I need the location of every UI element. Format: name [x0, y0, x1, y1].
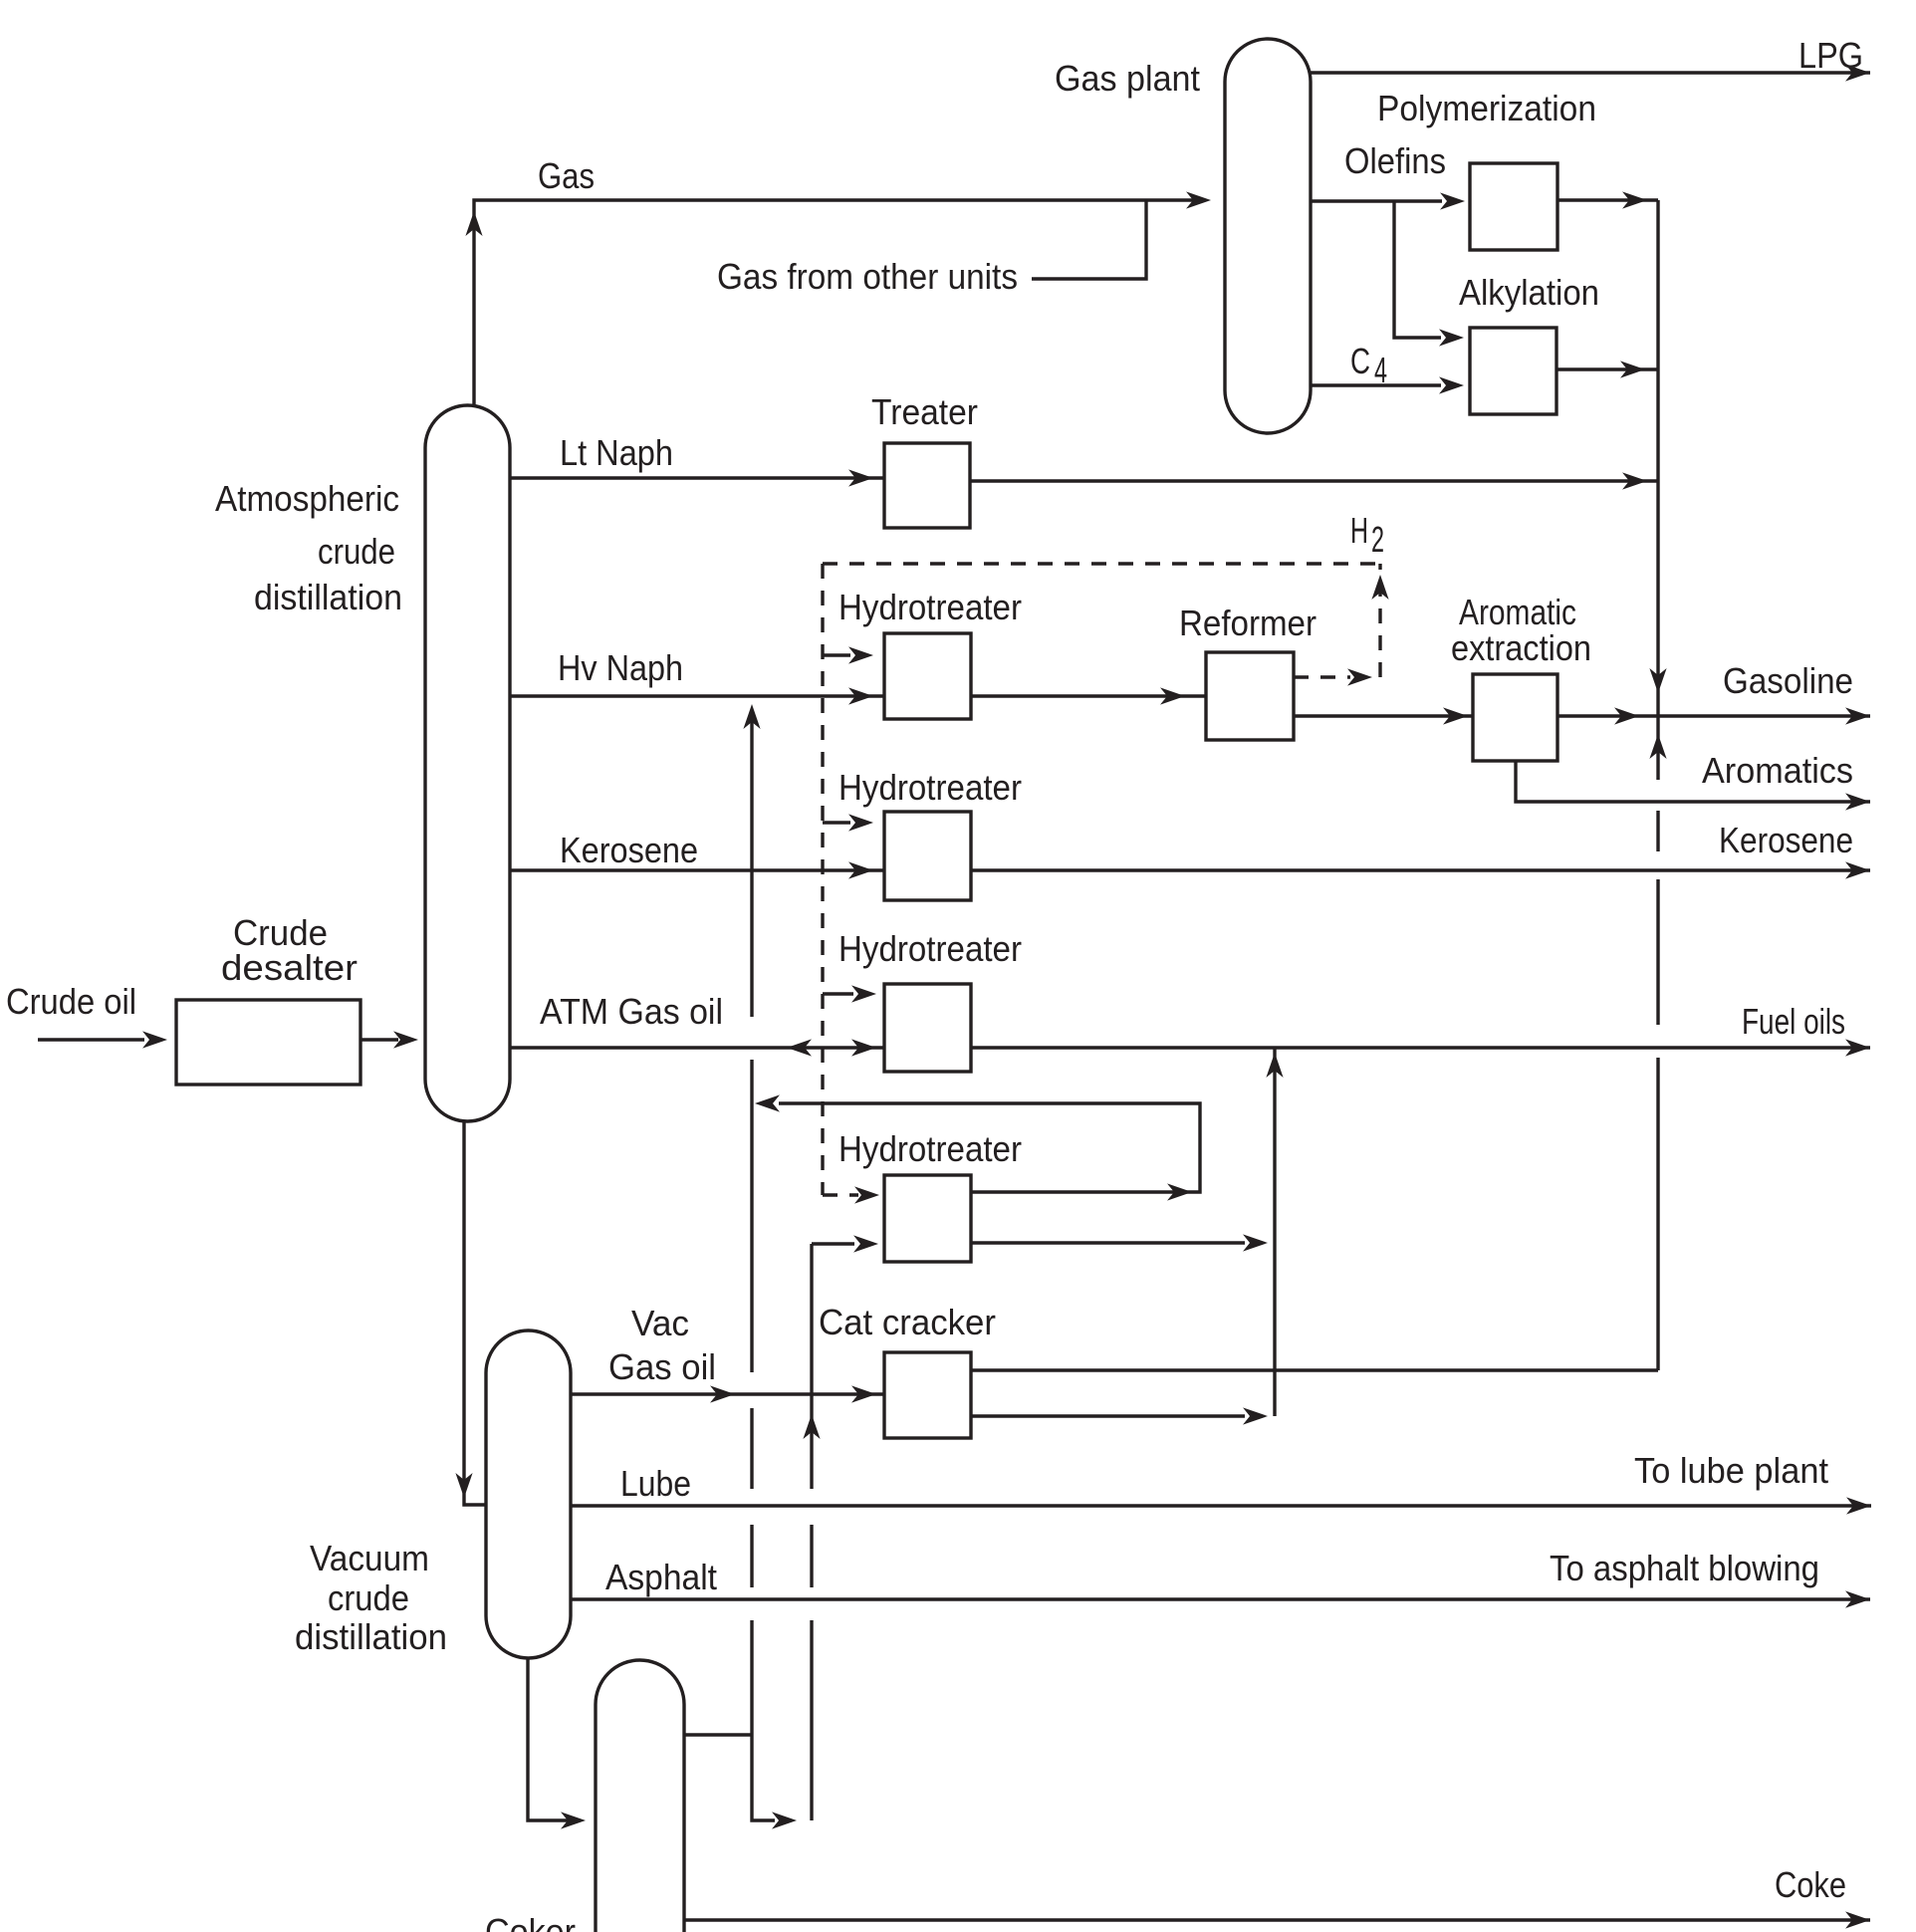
wire: gasoline header vertical segment down to cat cracker gasoline line — [1656, 1058, 1659, 1370]
svg-text:Gas plant: Gas plant — [1055, 58, 1200, 99]
wire: vacuum column bottoms to coker — [528, 1653, 574, 1820]
arrow: Hv Naph into hydrotreater 1 — [848, 687, 873, 704]
wire: kerosene product line — [971, 868, 1870, 871]
arrow: H2 up arrow into dashed header — [1371, 575, 1388, 600]
arrow: vacuum bottoms into coker — [561, 1811, 586, 1828]
svg-text:Gas: Gas — [538, 155, 595, 196]
unit: aromatic extraction box — [1473, 674, 1557, 761]
wire: fuel oil riser vertical — [1273, 1048, 1276, 1416]
wire: C4 line from gas plant to alkylation — [1311, 383, 1441, 386]
svg-text:Lt Naph: Lt Naph — [560, 432, 673, 473]
svg-text:Gas from other units: Gas from other units — [717, 256, 1018, 297]
VESSELS — [176, 39, 1557, 1932]
arrow: lube end — [1846, 1497, 1871, 1514]
arrow: ATM gas oil into hydrotreater 3 — [851, 1039, 876, 1056]
arrow: olefins branch into alkylation — [1439, 329, 1464, 346]
svg-text:Olefins: Olefins — [1344, 140, 1446, 181]
vessel: vacuum crude distillation column — [486, 1330, 571, 1658]
arrow: naphtha riser up arrow — [743, 704, 760, 729]
svg-text:desalter: desalter — [221, 947, 358, 988]
arrow: fuel oils end — [1845, 1039, 1870, 1056]
arrow: dashed H2 right arrow — [1347, 668, 1372, 685]
vessel: gas plant column — [1225, 39, 1311, 433]
wire: kerosene line from column to hydrotreater 2 — [510, 868, 886, 871]
arrow: vac gas oil mid arrow — [710, 1385, 735, 1402]
wire: coker gas oil riser segment between asphalt and lube — [810, 1525, 813, 1587]
svg-text:Asphalt: Asphalt — [605, 1557, 717, 1597]
wire: naphtha riser top segment to Hv Naph line — [750, 722, 753, 1017]
wire: naphtha riser segment between vac gas oil and lube — [750, 1408, 753, 1489]
wire: hydrotreater 1 outlet to reformer — [971, 694, 1208, 697]
arrow: coker gas oil up arrow into vac gas oil line — [803, 1414, 820, 1439]
unit: hydrotreater 1 box (Hv Naph) — [884, 633, 971, 719]
wire: gas overhead line from atmospheric column to gas plant — [474, 200, 1195, 410]
wire: asphalt line to asphalt blowing — [571, 1597, 1870, 1600]
svg-text:Vacuum: Vacuum — [310, 1538, 429, 1578]
svg-text:Polymerization: Polymerization — [1377, 88, 1596, 128]
svg-text:To lube plant: To lube plant — [1634, 1450, 1828, 1491]
wire: naphtha riser bottom segment from coker — [752, 1620, 775, 1820]
svg-text:Hydrotreater: Hydrotreater — [838, 767, 1022, 808]
svg-text:Aromatics: Aromatics — [1702, 750, 1853, 791]
svg-text:Alkylation: Alkylation — [1459, 272, 1599, 313]
arrow: gasoline end — [1845, 707, 1870, 724]
svg-text:crude: crude — [328, 1577, 409, 1618]
wire: hydrotreater 4 upper outlet loop — [779, 1103, 1200, 1192]
arrow: C4 into alkylation — [1439, 376, 1464, 393]
unit: hydrotreater 3 box (ATM gas oil) — [884, 984, 971, 1072]
svg-text:Gasoline: Gasoline — [1723, 660, 1853, 701]
wire: coker overhead to naphtha riser — [684, 1733, 752, 1736]
svg-text:Cat cracker: Cat cracker — [819, 1302, 996, 1342]
unit: polymerization box — [1470, 163, 1557, 250]
arrow: gas line up arrow — [465, 211, 482, 236]
wire: Hv Naph line from column to hydrotreater 1 — [510, 694, 886, 697]
svg-text:C: C — [1350, 341, 1370, 381]
wire: hydrotreater 4 lower outlet — [971, 1241, 1245, 1244]
svg-text:Gas oil: Gas oil — [608, 1346, 716, 1387]
wire: olefins branch down to alkylation — [1394, 201, 1441, 338]
unit: cat cracker box — [884, 1352, 971, 1438]
wire: cat cracker gasoline outlet to header — [971, 1368, 1658, 1371]
arrow: polymerization outlet — [1622, 191, 1647, 208]
svg-text:Lube: Lube — [620, 1463, 691, 1504]
arrow: into hydrotreater 4 lower inlet — [853, 1235, 878, 1252]
wire: crude oil feed line — [38, 1038, 144, 1041]
wire: gasoline header vertical segment between kerosene and fuel oils — [1656, 879, 1659, 1025]
vessel: atmospheric crude distillation column — [425, 405, 510, 1121]
wire: naphtha riser segment between ATM line and vac gas oil — [750, 1060, 753, 1372]
arrow: header down arrow above gasoline junction — [1649, 668, 1666, 693]
svg-text:Vac: Vac — [631, 1303, 689, 1343]
svg-text:H: H — [1350, 510, 1368, 551]
wire: dashed H2 header left vertical — [821, 564, 824, 1195]
wire: H2 feed stub to hydrotreater 1 — [823, 653, 850, 656]
unit: crude desalter box — [176, 1000, 360, 1085]
svg-text:2: 2 — [1371, 519, 1384, 560]
arrow: H2 stub into hydrotreater 1 — [848, 646, 873, 663]
vessel: coker column — [596, 1660, 684, 1932]
wire: desalter outlet to atmospheric column — [360, 1038, 398, 1041]
arrow: vac gas oil into cat cracker — [851, 1385, 876, 1402]
wire: naphtha riser segment between lube and asphalt — [750, 1525, 753, 1587]
arrow: asphalt end — [1845, 1590, 1870, 1607]
arrow: H2 into hydrotreater 4 — [854, 1186, 879, 1203]
wire: H2 feed stub to hydrotreater 2 — [823, 821, 850, 824]
wire: atmospheric column bottoms to vacuum column — [464, 1115, 488, 1505]
svg-text:Hydrotreater: Hydrotreater — [838, 587, 1022, 627]
svg-text:Coker: Coker — [485, 1911, 576, 1932]
arrow: loop corner arrow — [1167, 1183, 1192, 1200]
wire: coker riser corner into hydrotreater 4 — [812, 1242, 854, 1245]
wire: gasoline header vertical segment between aromatics and kerosene — [1656, 811, 1659, 851]
wire: treater outlet to header — [971, 479, 1658, 482]
unit: reformer box — [1206, 652, 1294, 740]
arrow: olefins into polymerization — [1440, 192, 1465, 209]
wire: ATM gas oil and fuel oils line — [510, 1046, 1870, 1049]
arrow: header up arrow below gasoline junction — [1649, 734, 1666, 759]
svg-text:Hydrotreater: Hydrotreater — [838, 1128, 1022, 1169]
arrow: cycle oil into fuel oil riser — [1243, 1407, 1268, 1424]
arrow: loop into naphtha riser — [755, 1094, 780, 1111]
svg-text:Atmospheric: Atmospheric — [215, 478, 399, 519]
arrow: coke end — [1845, 1911, 1870, 1928]
svg-text:LPG: LPG — [1798, 35, 1863, 76]
unit: alkylation box — [1470, 328, 1557, 414]
wire: dashed H2 from reformer — [1294, 675, 1350, 678]
unit: hydrotreater 4 box (coker gas oil) — [884, 1175, 971, 1262]
wire: lube line to lube plant — [571, 1504, 1871, 1507]
svg-text:Reformer: Reformer — [1179, 603, 1317, 643]
svg-text:Hv Naph: Hv Naph — [558, 647, 683, 688]
wire: H2 feed stub to hydrotreater 3 — [823, 992, 853, 995]
arrow: into reformer — [1160, 687, 1185, 704]
arrow: hydrotreater 4 lower outlet into fuel oil riser — [1243, 1234, 1268, 1251]
unit: hydrotreater 2 box (kerosene) — [884, 812, 971, 900]
arrow: LPG end — [1845, 64, 1870, 81]
svg-text:Kerosene: Kerosene — [560, 830, 698, 870]
arrow: aromatics end — [1845, 793, 1870, 810]
arrow: desalted crude into column — [393, 1031, 418, 1048]
wire: gasoline header vertical upper section — [1656, 200, 1659, 716]
arrow: H2 stub into hydrotreater 3 — [851, 985, 876, 1002]
arrow: fuel oil riser up arrow — [1266, 1053, 1283, 1078]
wire: dashed H2 header horizontal — [823, 562, 1380, 565]
arrow: atmospheric bottoms down arrow — [455, 1473, 472, 1498]
arrow: crude oil into desalter — [142, 1031, 167, 1048]
wire: polymerization outlet to gasoline header — [1557, 198, 1658, 201]
arrow: kerosene into hydrotreater 2 — [848, 861, 873, 878]
svg-text:Hydrotreater: Hydrotreater — [838, 928, 1022, 969]
arrow: alkylation outlet — [1620, 361, 1645, 377]
svg-text:To asphalt blowing: To asphalt blowing — [1550, 1548, 1819, 1588]
svg-text:distillation: distillation — [295, 1616, 447, 1657]
wire: gas from other units connector — [1032, 200, 1146, 279]
wire: coke product line — [684, 1918, 1870, 1921]
wire: alkylation outlet to header — [1557, 367, 1658, 370]
svg-text:Kerosene: Kerosene — [1719, 820, 1853, 860]
wire: reformer outlet to aromatic extraction — [1294, 714, 1475, 717]
svg-text:crude: crude — [318, 531, 395, 572]
wire: gasoline header vertical segment below junction — [1656, 716, 1659, 780]
wire: dashed H2 corner feed to hydrotreater 4 — [823, 1193, 858, 1196]
unit: treater box — [884, 443, 970, 528]
wire: LPG product line — [1307, 71, 1870, 74]
wire: gasoline product line — [1557, 714, 1870, 717]
arrow: gasoline pre-junction arrow — [1614, 707, 1639, 724]
wire: coker gas oil riser bottom segment — [810, 1620, 813, 1820]
arrow: treater outlet into header — [1622, 472, 1647, 489]
wire: vac gas oil line to cat cracker — [571, 1392, 886, 1395]
wire: coker gas oil riser segment up to hydrotreater 4 corner — [810, 1244, 813, 1489]
svg-text:Aromatic: Aromatic — [1459, 592, 1576, 632]
svg-text:4: 4 — [1374, 350, 1387, 390]
arrow: ATM gas oil left arrow to riser — [787, 1039, 812, 1056]
wire: Lt Naph line from column to treater — [510, 476, 886, 479]
arrow: gas into gas plant — [1186, 191, 1211, 208]
svg-text:Crude oil: Crude oil — [6, 981, 136, 1022]
wire: aromatics product line — [1516, 761, 1870, 802]
arrow: Lt Naph into treater — [848, 469, 873, 486]
arrow: H2 stub into hydrotreater 2 — [848, 814, 873, 831]
svg-text:Coke: Coke — [1775, 1864, 1846, 1905]
svg-text:Fuel oils: Fuel oils — [1742, 1001, 1845, 1042]
wire: dashed H2 vertical up to header — [1378, 564, 1381, 677]
wire: cat cracker cycle oil outlet — [971, 1414, 1245, 1417]
wire: olefins line from gas plant to polymerization — [1311, 199, 1442, 202]
svg-text:Treater: Treater — [871, 391, 978, 432]
arrow: into aromatic extraction — [1443, 707, 1468, 724]
arrow: kerosene end — [1845, 861, 1870, 878]
arrow: coker stream into gas oil riser — [772, 1811, 797, 1828]
svg-text:distillation: distillation — [254, 577, 402, 617]
svg-text:ATM Gas oil: ATM Gas oil — [540, 991, 723, 1032]
svg-text:extraction: extraction — [1451, 627, 1591, 668]
